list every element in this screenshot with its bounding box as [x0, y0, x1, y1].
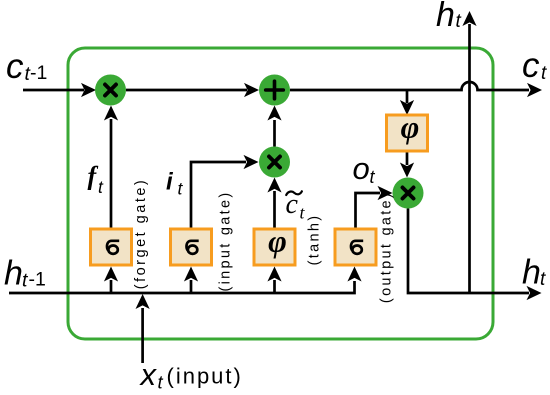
wire: multiply gate 3 down then right to h_t output	[408, 209, 529, 294]
svg-text:(output gate): (output gate)	[378, 191, 394, 303]
sigma box 2 (input gate)	[171, 229, 212, 265]
svg-text:x: x	[139, 357, 158, 392]
svg-text:c: c	[286, 189, 299, 220]
wire: sigma 1 up to multiply gate 1	[110, 119, 113, 229]
phi box 1 (output activation)	[387, 109, 428, 152]
label o_t	[353, 151, 376, 187]
wire: c-line from add gate to c_t output, with hop over h_t line	[290, 82, 529, 90]
label x_t (input)	[139, 357, 243, 393]
label h_t (bottom right)	[522, 254, 546, 292]
wire: h_t-1 input line along bottom, turning up into sigma 3	[9, 281, 355, 293]
label c_t-1	[6, 47, 47, 86]
svg-text:(forget gate): (forget gate)	[133, 178, 149, 290]
svg-text:-1: -1	[30, 62, 47, 84]
wire: x_t input arrow from bottom	[141, 308, 144, 363]
label c~_t (candidate cell state)	[286, 189, 306, 223]
wire: branch up into phi box 2 (tanh) bottom	[273, 280, 276, 293]
arrowhead into multiply gate 1	[81, 83, 96, 97]
wire: h_t branch up to top	[468, 24, 471, 293]
svg-text:-1: -1	[29, 269, 46, 291]
wire: multiply gate 2 up to add gate	[273, 120, 276, 147]
arrowhead into sigma 3 (output gate) bottom	[347, 267, 361, 282]
LSTM cell boundary (green rounded box)	[68, 48, 493, 339]
svg-text:(input): (input)	[167, 364, 243, 389]
multiply gate 1 (forget product on c-line)	[95, 75, 126, 106]
svg-text:t: t	[158, 372, 164, 393]
arrowhead into multiply gate 3	[400, 163, 414, 178]
sigma box 1 (forget gate)	[91, 229, 132, 265]
wire: c-line input segment from c_t-1	[23, 89, 84, 92]
multiply gate 2 (input gate product)	[259, 147, 290, 178]
wire: sigma 3 up then right to multiply gate 3	[356, 193, 381, 229]
label h_t (top)	[436, 0, 462, 34]
wire: c-line between multiply gate 1 and add gate	[126, 89, 247, 92]
svg-text:h: h	[522, 254, 541, 292]
arrowhead c_t output	[527, 83, 542, 97]
label f_t	[88, 162, 105, 198]
svg-text:(tanh): (tanh)	[307, 214, 323, 266]
label c_t (top right)	[522, 46, 547, 85]
svg-text:c: c	[6, 47, 24, 86]
arrowhead into add gate	[244, 83, 259, 97]
arrowhead h_t output right	[527, 286, 542, 300]
wire: branch up into sigma 1 (forget gate) bottom	[110, 280, 113, 293]
wire: phi box 2 (tanh) up to multiply gate 2	[273, 191, 276, 229]
wire: sigma 2 up then right to multiply gate 2	[191, 162, 246, 229]
svg-text:t: t	[456, 11, 462, 32]
label h_t-1 (bottom left)	[4, 255, 46, 293]
svg-text:t: t	[540, 269, 546, 290]
svg-text:h: h	[436, 0, 455, 34]
arrowhead h_t top	[462, 11, 476, 26]
svg-text:(input gate): (input gate)	[218, 191, 234, 292]
add gate (sum on c-line)	[259, 75, 290, 106]
svg-text:φ: φ	[268, 223, 287, 259]
sigma box 3 (output gate)	[335, 229, 376, 265]
svg-text:o: o	[353, 151, 370, 186]
wire: branch from c-line down to phi box 1	[406, 91, 409, 103]
label i_t	[166, 169, 184, 199]
arrowhead into phi box 1	[400, 100, 414, 115]
svg-text:h: h	[4, 255, 23, 293]
svg-text:φ: φ	[401, 109, 420, 145]
svg-text:t: t	[541, 63, 547, 84]
wire: branch up into sigma 2 (input gate) bottom	[190, 280, 193, 293]
svg-text:c: c	[522, 46, 540, 85]
wire: phi box 1 down to multiply gate 3	[406, 151, 409, 165]
phi box 2 (tanh candidate)	[254, 223, 295, 266]
multiply gate 3 (output gate product)	[393, 178, 424, 209]
